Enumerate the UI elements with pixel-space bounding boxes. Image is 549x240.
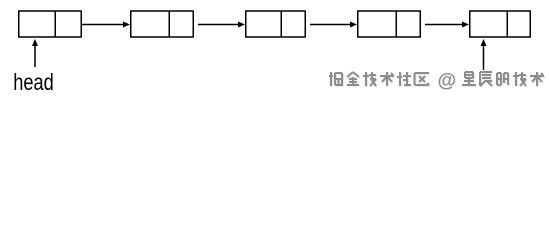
node 1 box — [19, 11, 82, 37]
head pointer up-arrow — [32, 39, 38, 67]
tail pointer up-arrow — [481, 39, 487, 70]
node 2 box — [131, 11, 194, 37]
watermark emboss highlight — [330, 72, 545, 93]
node 5 box — [470, 11, 531, 37]
node 3 box — [246, 11, 306, 37]
node 4 box — [358, 11, 421, 37]
svg-text:head: head — [13, 69, 54, 95]
wire arrow node2->node3 — [198, 22, 245, 28]
wire arrow node1->node2 — [82, 22, 131, 28]
wire arrow node4->node5 — [425, 22, 469, 28]
watermark gray text — [329, 71, 544, 92]
wire arrow node3->node4 — [310, 22, 357, 28]
